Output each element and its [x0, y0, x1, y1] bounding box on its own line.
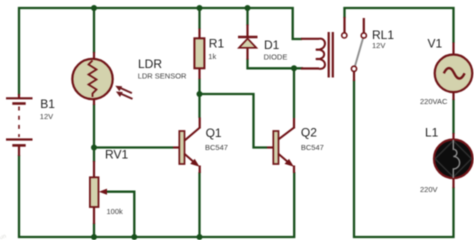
svg-text:BC547: BC547 — [205, 143, 228, 152]
svg-text:RV1: RV1 — [105, 148, 128, 162]
svg-text:L1: L1 — [425, 126, 439, 140]
svg-text:220V: 220V — [420, 185, 438, 194]
svg-text:1k: 1k — [208, 52, 216, 61]
svg-text:B1: B1 — [40, 97, 55, 111]
svg-text:D1: D1 — [264, 38, 280, 52]
svg-text:RL1: RL1 — [372, 28, 394, 42]
svg-text:12V: 12V — [40, 112, 53, 121]
svg-text:DIODE: DIODE — [264, 53, 288, 62]
svg-text:V1: V1 — [428, 36, 443, 50]
svg-text:Q1: Q1 — [206, 126, 222, 140]
svg-text:un: un — [0, 234, 7, 240]
svg-text:R1: R1 — [209, 37, 225, 51]
svg-text:LDR SENSOR: LDR SENSOR — [138, 72, 187, 81]
svg-text:BC547: BC547 — [301, 143, 324, 152]
svg-text:LDR: LDR — [138, 57, 162, 71]
svg-text:100k: 100k — [107, 207, 124, 216]
svg-text:12V: 12V — [372, 41, 385, 50]
svg-text:Q2: Q2 — [301, 125, 317, 139]
svg-text:220VAC: 220VAC — [420, 97, 448, 106]
